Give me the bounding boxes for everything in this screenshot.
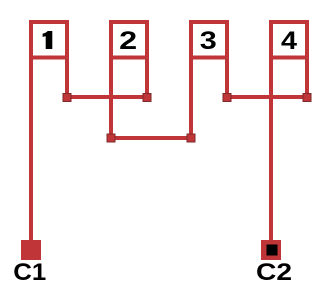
svg-text:3: 3 bbox=[200, 27, 217, 55]
svg-text:2: 2 bbox=[119, 27, 137, 55]
svg-text:C1: C1 bbox=[13, 259, 46, 286]
svg-text:4: 4 bbox=[281, 27, 297, 55]
svg-text:C2: C2 bbox=[256, 259, 292, 286]
